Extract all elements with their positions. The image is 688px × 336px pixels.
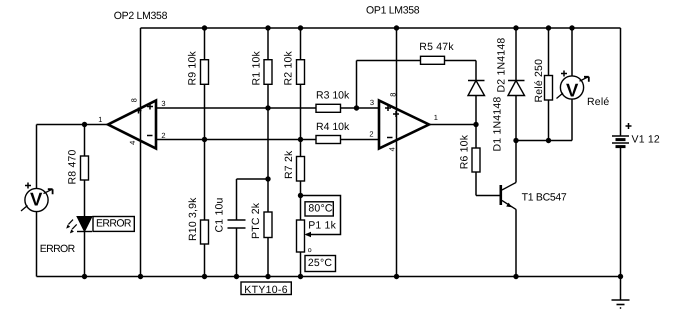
svg-text:R1 10k: R1 10k bbox=[251, 50, 263, 85]
svg-text:T1 BC547: T1 BC547 bbox=[522, 192, 567, 204]
svg-text:V1 12: V1 12 bbox=[632, 134, 660, 146]
svg-text:R3 10k: R3 10k bbox=[316, 90, 350, 102]
svg-text:R7 2k: R7 2k bbox=[283, 150, 295, 179]
svg-text:8: 8 bbox=[129, 98, 138, 102]
svg-text:OP2 LM358: OP2 LM358 bbox=[114, 10, 168, 22]
svg-text:R9 10k: R9 10k bbox=[186, 50, 198, 85]
svg-text:25°C: 25°C bbox=[308, 257, 332, 269]
svg-text:1: 1 bbox=[434, 113, 438, 122]
svg-text:o: o bbox=[308, 247, 312, 254]
svg-text:1: 1 bbox=[98, 115, 102, 124]
svg-text:C1 10u: C1 10u bbox=[214, 197, 226, 232]
svg-text:D1 1N4148: D1 1N4148 bbox=[492, 97, 504, 152]
svg-text:KTY10-6: KTY10-6 bbox=[244, 284, 288, 296]
svg-text:2: 2 bbox=[369, 129, 373, 138]
svg-text:D2 1N4148: D2 1N4148 bbox=[496, 38, 508, 93]
svg-text:R8 470: R8 470 bbox=[67, 149, 79, 184]
svg-text:R10 3,9k: R10 3,9k bbox=[187, 197, 199, 241]
svg-text:Relé: Relé bbox=[587, 96, 609, 108]
svg-text:4: 4 bbox=[128, 141, 137, 145]
svg-text:P1 1k: P1 1k bbox=[308, 220, 336, 232]
svg-text:ERROR: ERROR bbox=[40, 243, 76, 255]
svg-text:80°C: 80°C bbox=[308, 202, 332, 214]
svg-text:OP1 LM358: OP1 LM358 bbox=[366, 5, 420, 17]
svg-text:V: V bbox=[566, 80, 579, 101]
svg-text:PTC 2k: PTC 2k bbox=[250, 202, 262, 239]
svg-text:8: 8 bbox=[389, 93, 398, 97]
svg-text:R4 10k: R4 10k bbox=[316, 121, 350, 133]
svg-text:2: 2 bbox=[161, 131, 165, 140]
svg-text:V: V bbox=[30, 189, 43, 210]
svg-text:Relé 250: Relé 250 bbox=[533, 59, 545, 103]
svg-text:R6 10k: R6 10k bbox=[459, 134, 471, 169]
svg-text:3: 3 bbox=[370, 98, 374, 107]
svg-text:3: 3 bbox=[161, 99, 165, 108]
svg-text:R5 47k: R5 47k bbox=[419, 41, 454, 53]
svg-text:4: 4 bbox=[388, 147, 397, 151]
svg-text:ERROR: ERROR bbox=[96, 218, 132, 230]
svg-text:R2 10k: R2 10k bbox=[283, 50, 295, 85]
